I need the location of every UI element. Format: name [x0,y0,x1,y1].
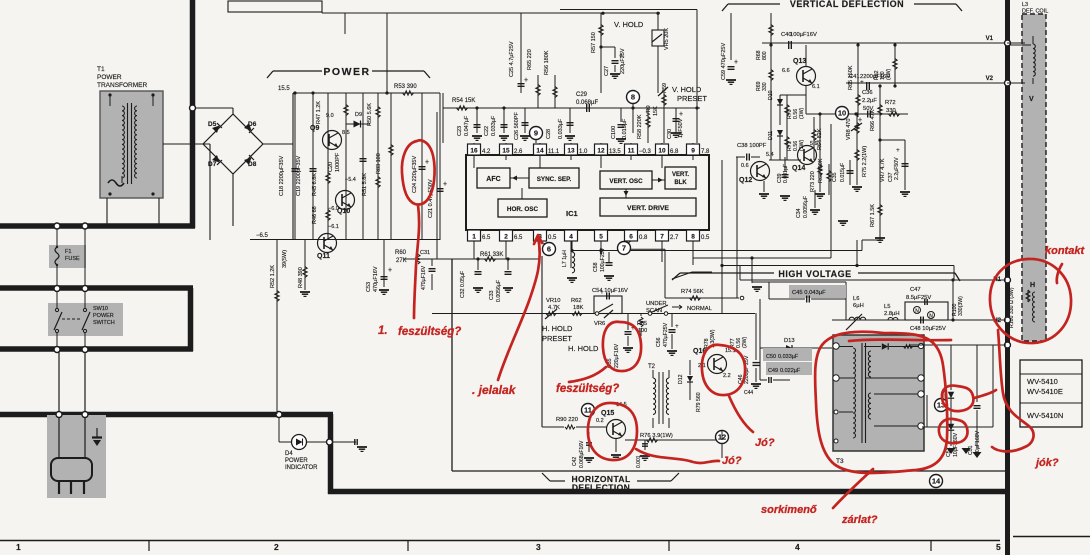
svg-text:C27: C27 [604,66,610,76]
svg-text:+: + [896,147,900,154]
IC1 pin 13 [565,144,578,155]
svg-text:−6.1: −6.1 [328,224,339,230]
red annotation tail Q15 to Jo [636,449,719,463]
svg-text:D8: D8 [248,161,257,168]
svg-text:R45 6.8K: R45 6.8K [312,173,318,196]
svg-text:WV-5410N: WV-5410N [1027,411,1063,420]
ground Q15 emitter [615,438,617,452]
svg-text:6: 6 [629,234,633,241]
svg-text:VR9: VR9 [646,105,652,116]
svg-text:VERTICAL DEFLECTION: VERTICAL DEFLECTION [790,0,904,9]
svg-text:D10: D10 [768,90,774,100]
svg-text:0.022µF: 0.022µF [780,368,801,374]
wire bridge connections [232,108,234,114]
svg-text:POWER: POWER [97,74,122,81]
node 10 circle [836,107,849,120]
svg-text:C47: C47 [910,287,921,293]
svg-text:C30: C30 [667,129,673,139]
svg-text:C19 2200µF35V: C19 2200µF35V [296,156,302,196]
transistor Q14 [798,146,817,165]
svg-text:+: + [443,181,447,188]
svg-text:C35: C35 [832,172,838,182]
svg-text:Jó?: Jó? [722,455,742,467]
svg-text:(1W): (1W) [799,107,805,119]
svg-text:D9: D9 [355,112,362,118]
IC1 internal arrows [510,177,529,179]
svg-text:330: 330 [762,82,768,91]
svg-text:SWITCH: SWITCH [93,320,115,326]
red annotation loop around C55 [603,322,641,371]
svg-text:9.0: 9.0 [326,113,334,119]
svg-text:HIGH VOLTAGE: HIGH VOLTAGE [778,269,851,279]
svg-text:5: 5 [599,234,603,241]
svg-text:0.5: 0.5 [701,235,710,241]
wire bus right of IC1 [721,160,723,313]
svg-text:7.8: 7.8 [701,149,710,155]
svg-text:HOR. OSC: HOR. OSC [507,206,539,213]
svg-text:0.015µF: 0.015µF [840,163,846,182]
wire pins 4 5 bus [572,250,862,252]
node 7 circle [618,242,631,255]
red annotation tail T3 to zarlat [833,469,873,508]
wire H hold bus [432,313,755,315]
svg-text:V: V [1029,96,1034,103]
svg-text:13: 13 [567,148,575,155]
svg-text:T1: T1 [97,66,105,73]
IC1 pin 2 [500,230,513,241]
svg-text:C38 100PF: C38 100PF [737,143,767,149]
svg-text:0.2: 0.2 [596,418,604,424]
svg-text:C51: C51 [968,445,974,455]
red annotation sweeping curve right [992,330,1034,451]
svg-text:1: 1 [472,234,476,241]
svg-text:−6.5: −6.5 [256,233,269,239]
svg-text:WV-5410E: WV-5410E [1027,387,1063,396]
node 6 circle [543,243,556,256]
IC1 pin 7 [656,230,669,241]
svg-text:D11: D11 [768,131,774,140]
capacitor C45 0.043uF [769,281,846,283]
transistor Q15 [607,420,626,439]
svg-text:7: 7 [622,244,626,253]
svg-text:R76 3.9(1W): R76 3.9(1W) [640,433,673,439]
IC1 pin 12 [595,144,608,155]
svg-text:N: N [915,309,919,315]
svg-text:C41: C41 [849,74,860,80]
IC1 pin 16 [468,144,481,155]
svg-text:R46 68: R46 68 [312,206,318,224]
svg-text:6µH: 6µH [853,303,864,309]
svg-text:C36: C36 [862,90,873,96]
svg-text:N: N [929,314,933,320]
transformer T3 flyback [833,335,924,451]
node 9 circle [530,127,543,140]
svg-text:1000PF: 1000PF [335,152,341,172]
svg-text:C23: C23 [457,126,463,136]
svg-text:R75 2.2(1W): R75 2.2(1W) [862,146,868,177]
node 8 circle [627,91,640,104]
svg-text:13.5: 13.5 [609,149,621,155]
ground plug [96,428,98,437]
svg-text:Q12: Q12 [739,177,752,184]
transistor Q13 [797,67,816,86]
IC1 pin 4 [565,230,578,241]
svg-text:C32 0.05µF: C32 0.05µF [460,271,466,298]
svg-text:C56: C56 [656,337,662,347]
svg-text:470µF16V: 470µF16V [421,265,427,290]
svg-text:2.2µF: 2.2µF [862,98,877,104]
svg-text:0.015µF: 0.015µF [622,118,628,139]
IC1 pin 11 [625,144,638,155]
svg-text:330(3W): 330(3W) [958,296,964,316]
svg-text:H: H [1030,282,1035,289]
svg-text:5: 5 [996,542,1001,552]
IC1 VERT BLK block [665,167,696,189]
svg-text:POWER: POWER [323,66,370,78]
IC1 pin 14 [534,144,547,155]
IC1 pin 3 [534,230,547,241]
svg-text:VR5 20K: VR5 20K [664,28,670,50]
wire H2 line [832,319,1006,321]
svg-text:L3: L3 [1022,2,1028,8]
svg-text:7: 7 [660,234,664,241]
svg-text:R65 220: R65 220 [527,49,533,70]
wire pin 7 branch [661,241,663,249]
red annotation tail Q16 to Jo 2 [729,396,753,432]
svg-text:VR7 4.7K: VR7 4.7K [880,158,886,182]
IC1 pin 8 [687,230,700,241]
IC1 pin 6 [625,230,638,241]
svg-text:4: 4 [795,542,800,552]
svg-text:TRANSFORMER: TRANSFORMER [97,82,148,89]
svg-text:4: 4 [569,234,573,241]
svg-text:R60: R60 [395,250,407,256]
svg-text:R72: R72 [885,100,896,106]
svg-text:0.6: 0.6 [741,163,749,169]
svg-text:V2: V2 [986,76,994,82]
red annotation loop diode D15 [942,386,974,412]
wire T1 connections [106,198,108,226]
svg-text:0.033µF: 0.033µF [558,118,564,139]
red annotation circle kontakt around H1 H2 [990,259,1071,343]
transistor Q16 [708,355,727,374]
wire inner border above horizontal deflection [451,259,453,471]
svg-text:jók?: jók? [1034,457,1059,469]
svg-text:R51 5.8K: R51 5.8K [362,173,368,196]
svg-text:C28: C28 [546,129,552,139]
svg-text:BLK: BLK [674,180,687,186]
IC1 SYNC SEP block [529,168,579,188]
svg-text:R73 220: R73 220 [810,171,816,192]
svg-text:feszültség?: feszültség? [398,326,461,338]
svg-text:12: 12 [597,148,605,155]
svg-text:C31: C31 [420,250,430,256]
svg-text:9: 9 [534,129,538,138]
wire vertical amp outputs [780,94,806,96]
svg-text:Q14: Q14 [792,165,805,172]
svg-text:Q15: Q15 [601,410,614,417]
svg-text:INDICATOR: INDICATOR [285,465,318,471]
svg-text:R66 47K: R66 47K [870,109,876,131]
svg-text:R79 560: R79 560 [696,392,702,412]
svg-text:+: + [600,289,604,296]
diode D16 [948,424,954,430]
capacitor C49 0.022uF [766,362,812,375]
LED D4 power indicator [276,412,282,418]
svg-text:V. HOLD: V. HOLD [672,85,702,94]
svg-text:100µF25V: 100µF25V [600,247,606,272]
svg-text:800: 800 [762,51,768,60]
svg-text:8: 8 [631,93,635,102]
svg-text:C49: C49 [768,368,778,374]
svg-text:C54 10µF16V: C54 10µF16V [592,288,628,294]
svg-text:C22: C22 [484,126,490,136]
ground near C45 [752,286,762,288]
IC1 AFC block [477,168,510,188]
red annotation tick below kontakt [1057,264,1062,283]
svg-text:Jó?: Jó? [755,437,775,449]
svg-text:sorkimenő: sorkimenő [761,504,817,516]
svg-text:PRESET: PRESET [542,334,572,343]
svg-text:VERT. DRIVE: VERT. DRIVE [627,205,669,212]
svg-text:0.0056µF: 0.0056µF [803,196,809,218]
svg-text:D4: D4 [285,451,293,457]
svg-text:+: + [425,159,429,166]
svg-text:−5.4: −5.4 [345,177,356,183]
svg-text:4.2: 4.2 [482,149,491,155]
svg-text:VR6: VR6 [594,321,605,327]
svg-text:5.4: 5.4 [766,152,774,158]
svg-text:Q11: Q11 [317,253,330,260]
wire top feed lines [228,1,322,12]
red annotation tail C55 to text [569,367,606,382]
svg-text:18K: 18K [573,305,583,311]
model table WV-5410 [1020,360,1082,427]
svg-text:0.068µF16V: 0.068µF16V [579,440,585,468]
wire x993 column [992,345,994,427]
ground near C36 net [838,220,848,222]
svg-text:+: + [679,111,683,118]
wire thick bottom boundary [0,412,333,418]
transistor Q11 [318,234,337,253]
svg-text:8.5: 8.5 [342,130,350,136]
svg-text:C58: C58 [593,262,599,272]
svg-text:(1W): (1W) [886,68,892,80]
fuse F1 [49,245,86,268]
svg-text:2.2: 2.2 [723,373,731,379]
red annotation tail from C24 loop [414,205,419,318]
svg-text:6.5: 6.5 [514,235,523,241]
IC1 pin 9 [687,144,700,155]
svg-text:10µF160V: 10µF160V [975,430,981,455]
red annotation line above T3 [849,340,951,341]
wire pin3 to Q15 base [541,256,543,427]
svg-text:+: + [388,267,392,274]
svg-text:11.1: 11.1 [548,149,560,155]
svg-text:220µF16V: 220µF16V [614,343,620,368]
svg-text:V1: V1 [986,36,994,42]
IC1 VERT OSC block [600,171,652,189]
svg-text:2: 2 [504,234,508,241]
svg-text:0.5: 0.5 [548,235,557,241]
svg-text:1.: 1. [378,325,388,337]
svg-text:330: 330 [886,108,896,114]
IC1 pin 5 [595,230,608,241]
svg-text:T2: T2 [648,364,656,370]
svg-text:6.8: 6.8 [670,149,679,155]
svg-text:zárlat?: zárlat? [841,514,878,526]
wire pin9 feed [696,108,698,143]
svg-text:D5: D5 [208,121,217,128]
svg-text:C59 470µF25V: C59 470µF25V [721,43,727,80]
svg-text:14: 14 [536,148,544,155]
transformer T1 power transformer [100,91,163,198]
svg-text:SYNC. SEP.: SYNC. SEP. [537,176,572,183]
svg-text:POWER: POWER [93,313,114,319]
red annotation loop around Q15 [588,403,637,460]
switch SW10 power switch [48,303,123,336]
svg-text:C26 560PF: C26 560PF [514,112,520,140]
wire V1 line [762,42,1006,44]
ground D4 [354,439,356,445]
svg-text:470µF25V: 470µF25V [663,322,669,347]
IC1 HOR OSC block [498,199,547,217]
svg-text:H. HOLD: H. HOLD [568,344,599,353]
IC1 pin 1 [468,230,481,241]
wire thick chassis boundary horizontal y=226 [0,223,195,229]
svg-text:6.5: 6.5 [482,235,491,241]
svg-text:3: 3 [536,542,541,552]
svg-text:VR8 470: VR8 470 [846,119,852,140]
svg-text:Q10: Q10 [337,208,350,215]
svg-text:10µF160V: 10µF160V [953,432,959,457]
red annotation jelalak line [498,237,540,380]
red annotation loop around C24 [402,140,435,204]
svg-text:D7: D7 [208,161,217,168]
svg-text:(2W): (2W) [742,336,748,348]
svg-text:C42: C42 [572,457,578,466]
svg-text:R54 15K: R54 15K [452,98,475,104]
IC1 main body [466,155,709,230]
svg-text:0.001µF: 0.001µF [783,164,789,183]
transistor Q9 [345,93,347,240]
svg-text:2.8µH: 2.8µH [884,311,900,317]
AC power plug [47,415,106,498]
svg-text:C25 4.7µF25V: C25 4.7µF25V [509,41,515,77]
svg-text:R53 390: R53 390 [394,84,417,90]
svg-text:R74 56K: R74 56K [681,289,704,295]
svg-text:T3: T3 [836,458,844,465]
svg-text:14: 14 [932,477,941,486]
ground Q12 [763,181,765,192]
svg-text:470µF16V: 470µF16V [373,266,379,292]
svg-text:R67 1.5K: R67 1.5K [870,204,876,227]
svg-text:R57 150: R57 150 [591,32,597,53]
svg-text:C20: C20 [328,162,334,172]
svg-text:kontakt: kontakt [1045,245,1085,257]
diode inside T3 [882,343,888,349]
svg-text:UNDER: UNDER [646,301,667,307]
wire IC top rail [443,107,700,109]
svg-text:10: 10 [838,109,846,118]
svg-text:15: 15 [502,148,510,155]
svg-text:VERT. OSC: VERT. OSC [609,178,643,185]
svg-text:Q9: Q9 [310,125,319,132]
wire V2 line [846,82,1006,84]
svg-text:0.001: 0.001 [636,455,642,468]
red annotation loop diode D16 [939,419,968,443]
wire thick chassis boundary top-left vertical [190,0,196,228]
svg-text:C34: C34 [796,208,802,218]
svg-text:−6.0: −6.0 [328,206,339,212]
node 11 circle [582,404,595,417]
svg-text:AFC: AFC [486,176,500,183]
svg-text:L7 1µH: L7 1µH [562,250,568,267]
svg-text:D6: D6 [248,121,257,128]
wire fuse column [56,229,58,247]
transistor Q12 [751,162,770,181]
svg-text:IC1: IC1 [566,209,578,218]
svg-text:2.2µF50V: 2.2µF50V [894,157,900,180]
svg-text:C18 2200µF35V: C18 2200µF35V [279,156,285,196]
svg-text:F1: F1 [65,249,71,255]
svg-text:9: 9 [691,148,695,155]
svg-text:39(5W): 39(5W) [282,250,288,268]
node 14 circle [930,475,943,488]
svg-text:L6: L6 [853,296,859,302]
svg-text:0.033µF: 0.033µF [491,115,497,136]
svg-text:V. HOLD: V. HOLD [614,20,644,29]
svg-text:8: 8 [691,234,695,241]
svg-text:C48 10µF25V: C48 10µF25V [910,326,946,332]
red annotation loop around Q16 [702,345,745,395]
svg-text:C100: C100 [611,126,617,139]
capacitor C50 0.033uF [763,348,812,361]
svg-text:1: 1 [16,542,21,552]
svg-text:PRESET: PRESET [677,94,707,103]
svg-text:R56 180K: R56 180K [544,50,550,75]
svg-text:0.0056µF: 0.0056µF [496,280,502,302]
svg-text:6.6: 6.6 [782,68,790,74]
wire L3 V links [1007,42,1025,44]
svg-text:C44: C44 [744,390,753,396]
svg-text:2.6: 2.6 [514,149,523,155]
wire pin 8 branch [692,241,694,258]
wire H1 feed [740,279,1006,281]
svg-text:+: + [524,77,528,84]
red annotation loop around T3 [815,332,947,473]
svg-text:15K: 15K [653,106,659,116]
wire T3 area [910,344,1006,346]
svg-text:R50 5.6K: R50 5.6K [367,103,373,126]
svg-text:NORMAL: NORMAL [687,306,713,312]
IC1 pin 15 [500,144,513,155]
svg-text:D13: D13 [784,338,795,344]
wire top feed V hold [560,9,697,11]
svg-text:+: + [619,53,623,60]
wire pin outputs down [473,241,475,259]
IC1 pin 10 [656,144,669,155]
svg-text:D12: D12 [678,374,684,384]
svg-text:15.5: 15.5 [278,86,290,92]
svg-text:+: + [734,59,738,66]
svg-text:H. HOLD: H. HOLD [542,324,573,333]
diode bridge D5 D6 D7 D8 [203,114,233,144]
svg-text:6: 6 [547,245,551,254]
svg-text:Q13: Q13 [793,58,806,65]
svg-text:feszültség?: feszültség? [556,383,619,395]
svg-text:WV-5410: WV-5410 [1027,377,1058,386]
